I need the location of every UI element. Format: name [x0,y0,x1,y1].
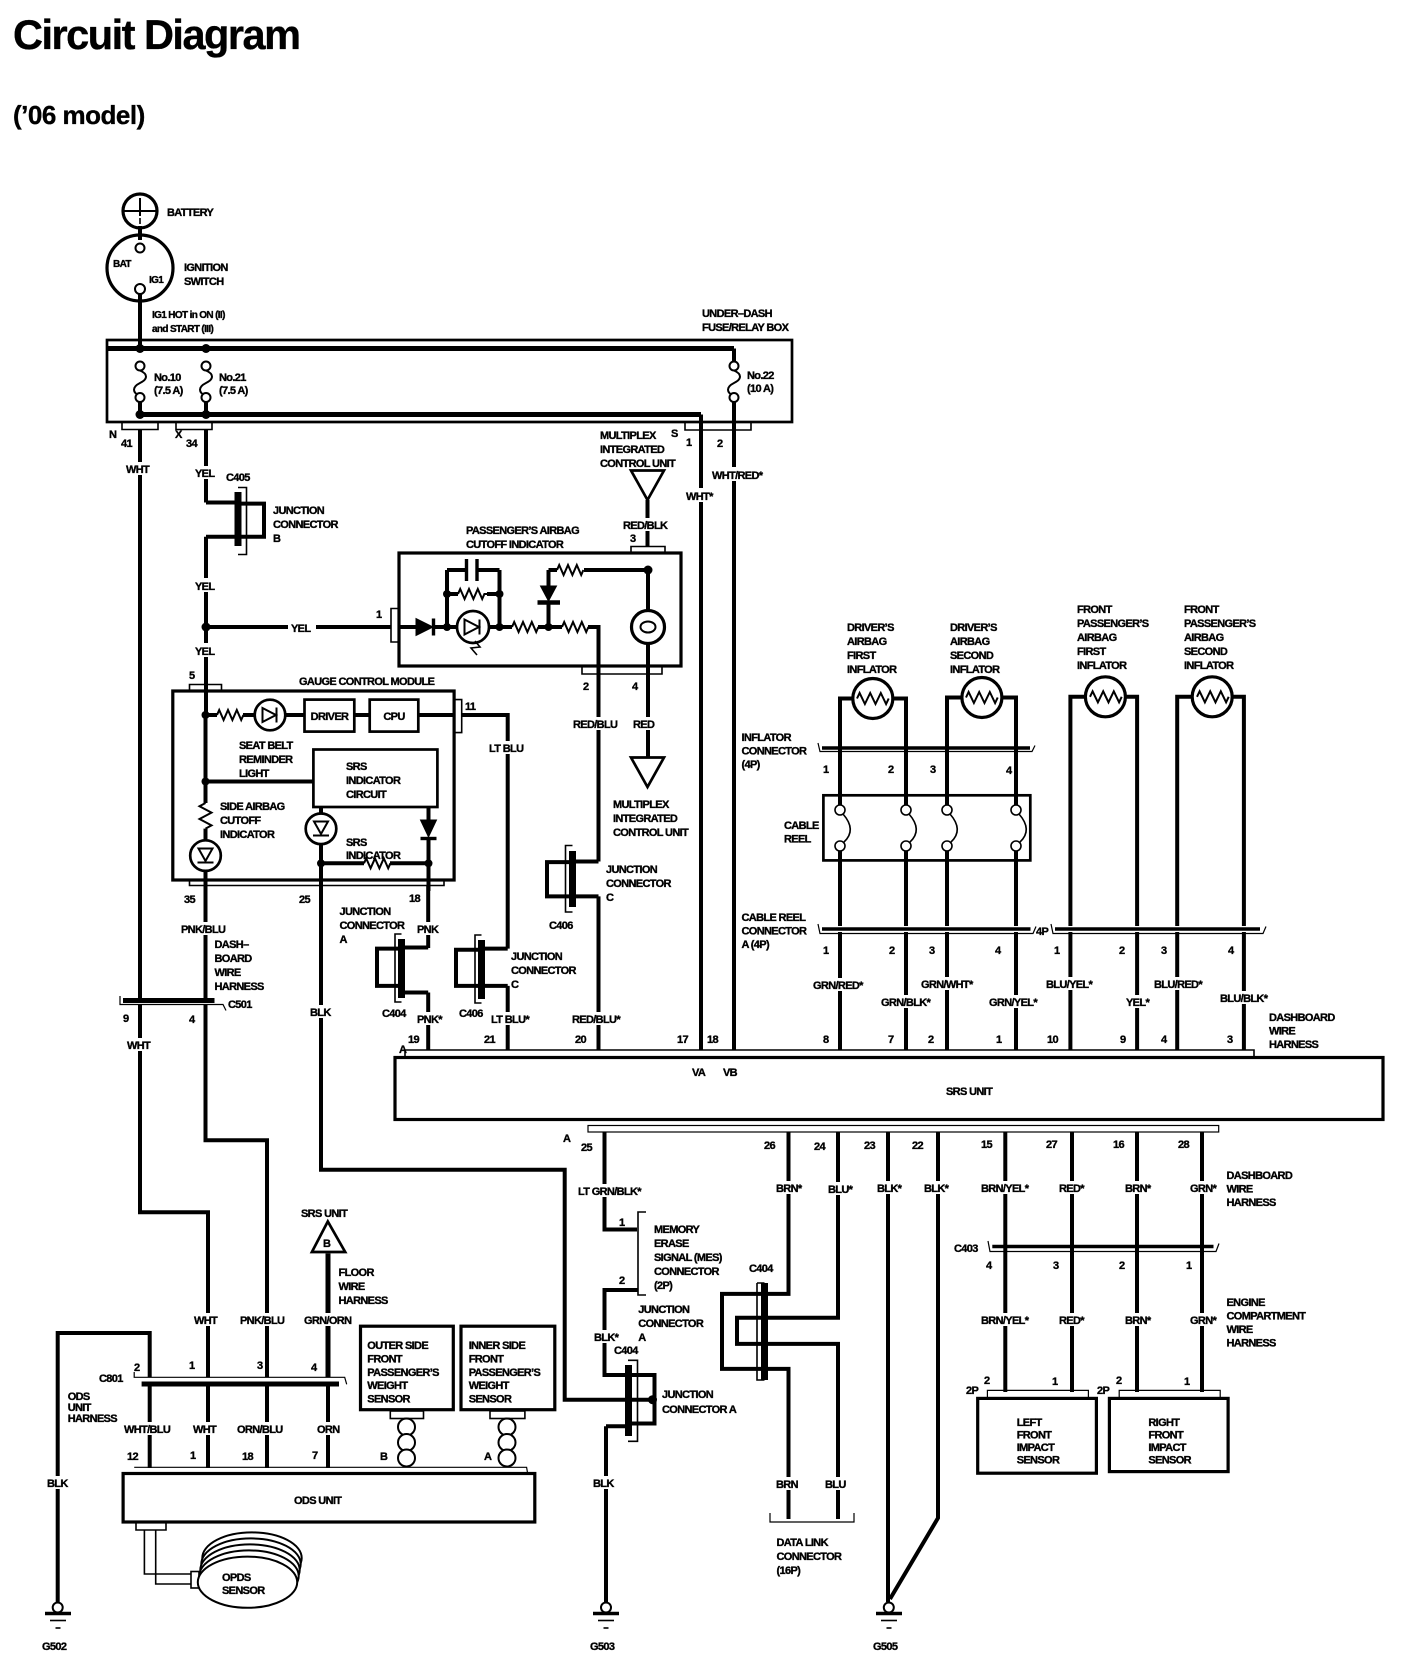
svg-text:ORN: ORN [317,1424,340,1436]
svg-text:YEL: YEL [195,468,215,480]
svg-text:No.10: No.10 [154,372,181,384]
svg-text:HARNESS: HARNESS [215,981,265,993]
outer sensor connector and spring B [380,1411,424,1467]
svg-text:REMINDER: REMINDER [239,754,293,766]
svg-text:A: A [638,1332,646,1344]
svg-text:LT BLU: LT BLU [489,743,524,755]
svg-text:19: 19 [408,1034,419,1046]
svg-text:INNER SIDE: INNER SIDE [469,1340,526,1352]
svg-text:11: 11 [465,701,476,713]
left front impact sensor [966,1375,1096,1473]
pin 1 of cutoff indicator [376,609,399,643]
resistor R5 [217,710,243,720]
svg-text:RIGHT: RIGHT [1148,1417,1180,1429]
svg-text:18: 18 [242,1451,253,1463]
wire WHT/RED* to SRS pin 18 [732,430,736,1050]
svg-text:C404: C404 [749,1263,774,1275]
svg-text:18: 18 [409,893,420,905]
svg-text:BLU: BLU [825,1479,846,1491]
SRS unit source triangle B [301,1208,348,1252]
svg-text:PASSENGER’S AIRBAG: PASSENGER’S AIRBAG [466,525,579,537]
svg-text:GRN/RED*: GRN/RED* [813,980,864,992]
wire BLK to G503 [604,1426,608,1602]
svg-text:FRONT: FRONT [367,1353,403,1365]
note floor wire harness [339,1267,389,1307]
wire BLU* from SRS pin 24 [768,1132,838,1318]
svg-text:CONNECTOR: CONNECTOR [742,926,808,938]
svg-text:A: A [563,1133,571,1145]
cpu block [370,700,419,732]
cable reel contact 2 [901,805,916,851]
cable reel [784,795,1030,860]
svg-text:(’06 model): (’06 model) [13,100,145,130]
svg-text:16: 16 [1113,1139,1124,1151]
svg-text:WHT/BLU: WHT/BLU [124,1424,171,1436]
svg-text:HARNESS: HARNESS [339,1295,389,1307]
svg-text:SENSOR: SENSOR [222,1585,265,1597]
wire PNK/BLU below C501 [206,1005,268,1377]
svg-text:2: 2 [1119,945,1125,957]
svg-text:3: 3 [930,764,936,776]
note ODS unit harness [68,1391,118,1425]
gauge control module [173,670,454,880]
svg-text:INDICATOR: INDICATOR [346,775,401,787]
svg-text:18: 18 [707,1034,718,1046]
svg-text:2: 2 [134,1362,140,1374]
svg-text:BOARD: BOARD [215,953,253,965]
svg-text:(7.5 A): (7.5 A) [154,385,184,397]
note dashboard wire harness (lower right) [1227,1170,1293,1209]
note dashboard wire harness (upper right) [1269,1012,1335,1051]
wire [206,713,218,717]
svg-text:BLK*: BLK* [877,1183,903,1195]
svg-text:IGNITION: IGNITION [184,262,228,274]
wire LT BLU out [462,715,508,949]
wire GRN/BLK* [904,932,908,1050]
wire RED/BLU* to SRS pin 20 [597,896,601,1050]
svg-text:WIRE: WIRE [215,967,241,979]
svg-text:INFLATOR: INFLATOR [950,664,1000,676]
svg-text:ERASE: ERASE [654,1238,689,1250]
svg-text:IMPACT: IMPACT [1017,1442,1055,1454]
resistor R4 parallel [443,589,504,599]
resistor R7 [321,858,429,868]
svg-text:BLK: BLK [47,1478,68,1490]
wire GRN/ORN from triangle [326,1254,331,1378]
svg-text:AIRBAG: AIRBAG [1077,632,1117,644]
svg-text:B: B [323,1238,331,1250]
wire BLK* from MES pin 2 [605,1290,639,1375]
svg-text:SRS UNIT: SRS UNIT [301,1208,348,1220]
svg-text:24: 24 [814,1141,826,1153]
wire WHT* to SRS pin 17 [699,430,703,1050]
wire GRN/YEL* [1014,932,1018,1050]
wire ORN to ODS pin 7 [326,1386,330,1468]
svg-text:PNK/BLU: PNK/BLU [240,1315,285,1327]
svg-text:FRONT: FRONT [1148,1430,1184,1442]
wire [285,713,304,717]
junction connector B C405 [206,472,339,555]
fuse No.10 (7.5 A) [134,362,184,415]
svg-text:2: 2 [1119,1260,1125,1272]
svg-text:BRN*: BRN* [1125,1315,1152,1327]
svg-text:B: B [273,533,281,545]
resistor R6 (side airbag branch) [200,782,285,842]
svg-text:S: S [671,428,678,440]
svg-text:INFLATOR: INFLATOR [1077,660,1127,672]
under-dash fuse/relay box [107,308,792,422]
wire [489,625,512,629]
svg-text:AIRBAG: AIRBAG [1184,632,1224,644]
svg-text:FLOOR: FLOOR [339,1267,375,1279]
node bottombus-fuse10 [136,410,145,419]
svg-text:3: 3 [929,945,935,957]
svg-text:25: 25 [581,1142,592,1154]
svg-text:5: 5 [189,670,195,682]
node [317,859,325,867]
resistor R1 [512,622,538,632]
front passenger's airbag first inflator [1077,604,1149,717]
svg-text:YEL: YEL [195,646,215,658]
wire BLU/YEL* [1068,932,1072,1050]
ground G503 [590,1603,619,1654]
connector C501 [120,996,252,1026]
svg-text:9: 9 [123,1013,129,1025]
svg-text:FIRST: FIRST [1077,646,1106,658]
svg-text:YEL: YEL [291,623,311,635]
cable reel connector A (4P) left [742,912,1037,957]
junction connector A C404 (middle) [722,1263,774,1380]
svg-text:JUNCTION: JUNCTION [511,951,563,963]
svg-text:CONNECTOR: CONNECTOR [340,920,406,932]
svg-text:CABLE REEL: CABLE REEL [742,912,807,924]
node bottombus-fuse21 [202,410,211,419]
pin 3 top [630,533,665,553]
svg-text:BLK*: BLK* [594,1332,620,1344]
svg-text:FIRST: FIRST [847,650,876,662]
svg-text:9: 9 [1120,1034,1126,1046]
svg-text:FRONT: FRONT [1077,604,1113,616]
svg-text:CABLE: CABLE [784,820,819,832]
wire PNK/BLU pin35 down [204,886,208,1002]
svg-text:OUTER SIDE: OUTER SIDE [367,1340,428,1352]
svg-text:LT BLU*: LT BLU* [491,1014,530,1026]
svg-text:BLK: BLK [310,1007,331,1019]
svg-text:VB: VB [723,1067,738,1079]
svg-text:(7.5 A): (7.5 A) [219,385,249,397]
wire YEL* [1135,932,1139,1050]
svg-text:INFLATOR: INFLATOR [847,664,897,676]
svg-text:RED/BLU: RED/BLU [573,719,618,731]
outer side front passenger's weight sensor [361,1326,454,1410]
svg-text:FRONT: FRONT [469,1353,505,1365]
svg-text:No.21: No.21 [219,372,246,384]
memory erase signal (MES) connector (2P) [619,1212,723,1295]
svg-text:Circuit Diagram: Circuit Diagram [13,11,300,58]
svg-text:CUTOFF INDICATOR: CUTOFF INDICATOR [466,539,564,551]
fuse No.21 (7.5 A) [200,362,249,415]
svg-text:GRN/YEL*: GRN/YEL* [989,997,1038,1009]
svg-text:(16P): (16P) [777,1565,802,1577]
svg-text:WHT: WHT [193,1424,217,1436]
note engine compartment wire harness [1227,1297,1307,1350]
svg-text:CONNECTOR: CONNECTOR [742,746,808,758]
svg-text:34: 34 [186,438,198,450]
svg-text:INTEGRATED: INTEGRATED [600,444,665,456]
svg-text:BLU/BLK*: BLU/BLK* [1220,993,1269,1005]
svg-text:HARNESS: HARNESS [1227,1197,1277,1209]
indicator LED U2 [457,611,489,655]
wire fp inflator1 left [1070,697,1085,926]
svg-text:IMPACT: IMPACT [1148,1442,1186,1454]
svg-text:FRONT: FRONT [1184,604,1220,616]
svg-text:FUSE/RELAY BOX: FUSE/RELAY BOX [702,322,790,334]
svg-text:ORN/BLU: ORN/BLU [237,1424,283,1436]
pins 2 / 4 bottom bracket [582,667,662,694]
svg-text:PASSENGER’S: PASSENGER’S [367,1367,439,1379]
svg-text:3: 3 [1227,1034,1233,1046]
OPDS sensor [198,1532,302,1607]
SRS indicator LED [306,807,401,862]
wire BRN down to data link [768,1369,789,1519]
node R1-R2 [545,623,553,631]
svg-text:CONNECTOR A: CONNECTOR A [662,1404,737,1416]
svg-text:2: 2 [583,681,589,693]
wire WHT/BLU to ODS pin 12 [148,1386,152,1468]
wire pin5 into module [204,691,208,716]
node [425,859,433,867]
svg-text:WIRE: WIRE [1269,1026,1295,1038]
wire fp inflator1 right [1125,697,1137,926]
svg-text:CONTROL UNIT: CONTROL UNIT [600,458,676,470]
svg-text:2: 2 [717,438,723,450]
svg-text:1: 1 [1052,1376,1058,1388]
wire YEL (middle) [204,537,208,691]
svg-text:1: 1 [1186,1260,1192,1272]
wire LT BLU* to SRS pin 21 [506,986,510,1050]
wire YEL from pin 34 (upper) [204,430,208,503]
svg-text:2P: 2P [966,1385,978,1397]
wire RED/BLU upper [597,666,601,862]
node YEL tap [202,623,211,632]
svg-text:FRONT: FRONT [1017,1430,1053,1442]
svg-text:BLK*: BLK* [924,1183,950,1195]
svg-text:G505: G505 [873,1641,898,1653]
wire BLU/RED* [1175,932,1179,1050]
wire to pin 35 [204,871,208,891]
svg-text:SRS: SRS [346,761,367,773]
svg-text:SECOND: SECOND [950,650,994,662]
cable reel contact 1 [835,805,850,851]
svg-text:2P: 2P [1097,1385,1109,1397]
svg-text:PNK: PNK [417,924,439,936]
svg-text:C: C [511,979,519,991]
svg-text:26: 26 [764,1140,775,1152]
svg-text:DRIVER: DRIVER [311,711,349,723]
wire to SRS indicator circuit [206,780,314,784]
bus bottom [140,412,701,417]
wire into indicator [399,625,417,629]
svg-text:1: 1 [1184,1376,1190,1388]
svg-text:1: 1 [619,1217,625,1229]
svg-text:41: 41 [121,438,132,450]
svg-text:C404: C404 [614,1345,639,1357]
svg-text:BRN*: BRN* [776,1183,803,1195]
wire module left branch [204,715,208,782]
svg-text:INFLATOR: INFLATOR [1184,660,1234,672]
svg-text:CONNECTOR: CONNECTOR [654,1266,720,1278]
svg-text:15: 15 [981,1139,992,1151]
node cap right on main [496,623,504,631]
svg-text:2: 2 [889,945,895,957]
wire inflator2 right [1002,698,1016,807]
svg-text:1: 1 [996,1034,1002,1046]
svg-text:1: 1 [686,437,692,449]
node module top-left [202,711,210,719]
driver's airbag first inflator [847,622,897,719]
svg-text:28: 28 [1178,1139,1189,1151]
svg-text:10: 10 [1047,1034,1058,1046]
connector C403 [954,1241,1219,1272]
node bus-fuse10 [136,344,145,353]
note dashboard wire harness [215,939,265,993]
wire BRN* from SRS pin 26 [768,1132,789,1294]
svg-text:RED/BLK: RED/BLK [623,520,668,532]
SRS indicator circuit block [313,750,437,808]
wire RED* from SRS pin 27 [1070,1132,1074,1392]
svg-text:A: A [340,934,348,946]
svg-text:12: 12 [127,1451,138,1463]
svg-text:17: 17 [677,1034,688,1046]
connector C801 [99,1360,347,1385]
svg-text:21: 21 [484,1034,495,1046]
node bus-fuse21 [202,344,211,353]
svg-text:SENSOR: SENSOR [1017,1455,1060,1467]
svg-text:UNDER–DASH: UNDER–DASH [702,308,773,320]
svg-text:PASSENGER’S: PASSENGER’S [1077,618,1149,630]
svg-text:2: 2 [984,1375,990,1387]
svg-text:WHT: WHT [127,1040,151,1052]
svg-text:C801: C801 [99,1373,123,1385]
wire BLK from pin25 [321,886,650,1400]
svg-text:BRN/YEL*: BRN/YEL* [981,1183,1030,1195]
junction connector A C404 (BLK) [606,1304,737,1441]
svg-text:OPDS: OPDS [222,1572,251,1584]
inner side front passenger's weight sensor [461,1326,555,1410]
svg-text:3: 3 [630,533,636,545]
svg-text:JUNCTION: JUNCTION [662,1389,714,1401]
svg-text:JUNCTION: JUNCTION [273,505,325,517]
wire BRN/YEL* from SRS pin 15 [1003,1132,1007,1392]
svg-text:WIRE: WIRE [1227,1324,1253,1336]
cable reel contact 3 [942,805,957,851]
svg-text:1: 1 [376,609,382,621]
inner sensor connector and spring A [484,1411,525,1467]
wire inflator2 left [947,698,962,807]
resistor R2 [562,622,588,632]
svg-text:HARNESS: HARNESS [1227,1338,1277,1350]
wire ORN/BLU to ODS pin 18 [265,1386,269,1468]
wire YEL horizontal to indicator [206,625,391,629]
svg-text:25: 25 [299,894,310,906]
svg-text:BAT: BAT [113,259,131,270]
fuse No.22 (10 A) [728,362,774,431]
wire [243,713,255,717]
svg-text:LIGHT: LIGHT [239,768,270,780]
ODS bottom connector to OPDS [136,1522,199,1588]
svg-text:C501: C501 [228,999,252,1011]
wire cap branch left [445,570,449,627]
svg-text:(4P): (4P) [742,759,761,771]
svg-text:CONTROL UNIT: CONTROL UNIT [613,827,689,839]
svg-text:INTEGRATED: INTEGRATED [613,813,678,825]
svg-text:BLU/RED*: BLU/RED* [1154,979,1203,991]
svg-text:GRN/ORN: GRN/ORN [304,1315,352,1327]
svg-text:35: 35 [184,894,195,906]
multiplex integrated control unit (lower) [613,758,689,840]
svg-text:SECOND: SECOND [1184,646,1228,658]
svg-text:CONNECTOR: CONNECTOR [777,1551,843,1563]
resistor R3 [549,565,649,575]
wire [434,625,457,629]
bus top (hot in ON/START) [107,346,734,351]
svg-text:ENGINE: ENGINE [1227,1297,1266,1309]
SRS unit connector bracket bottom [588,1126,1219,1133]
svg-text:RED*: RED* [1059,1183,1085,1195]
svg-text:23: 23 [864,1140,875,1152]
connector pin N 41 [109,423,158,450]
svg-text:GRN/WHT*: GRN/WHT* [921,979,974,991]
wire RED to lower MICU [646,666,650,757]
svg-text:G502: G502 [42,1641,67,1653]
wire inflator1 right [893,699,906,807]
wire inflator1 left [840,699,853,807]
svg-text:LEFT: LEFT [1017,1417,1043,1429]
wire PNK* to SRS pin 19 [426,993,430,1051]
capacitor C1 [447,559,500,581]
wire GRN* from SRS pin 28 [1200,1132,1204,1392]
svg-text:GRN*: GRN* [1190,1183,1217,1195]
right front impact sensor [1097,1375,1228,1472]
wire WHT to ODS pin 1 [206,1386,210,1468]
battery B1 [123,194,214,228]
svg-text:MULTIPLEX: MULTIPLEX [600,430,657,442]
svg-text:PNK/BLU: PNK/BLU [181,924,226,936]
svg-text:JUNCTION: JUNCTION [340,906,392,918]
svg-text:CIRCUIT: CIRCUIT [346,789,387,801]
node cap left on main [443,623,451,631]
svg-text:CONNECTOR: CONNECTOR [273,519,339,531]
front passenger's airbag second inflator [1184,604,1256,717]
ground G502 [42,1603,71,1654]
svg-text:1: 1 [823,764,829,776]
svg-text:WHT/RED*: WHT/RED* [712,470,764,482]
svg-text:PASSENGER’S: PASSENGER’S [469,1367,541,1379]
svg-text:2: 2 [888,764,894,776]
svg-text:7: 7 [888,1034,894,1046]
svg-text:DATA LINK: DATA LINK [777,1537,829,1549]
wire [538,625,562,629]
svg-text:DASHBOARD: DASHBOARD [1227,1170,1293,1182]
wire ODS unit harness loop [58,1333,150,1602]
ignition switch SW1 [107,235,228,301]
svg-text:and START (III): and START (III) [152,324,213,335]
wire BLU down to data link [768,1344,838,1519]
svg-text:PNK*: PNK* [417,1014,443,1026]
cable reel contact 4 [1011,805,1026,851]
wire battery to ignition [138,226,142,240]
svg-text:YEL*: YEL* [1126,997,1150,1009]
